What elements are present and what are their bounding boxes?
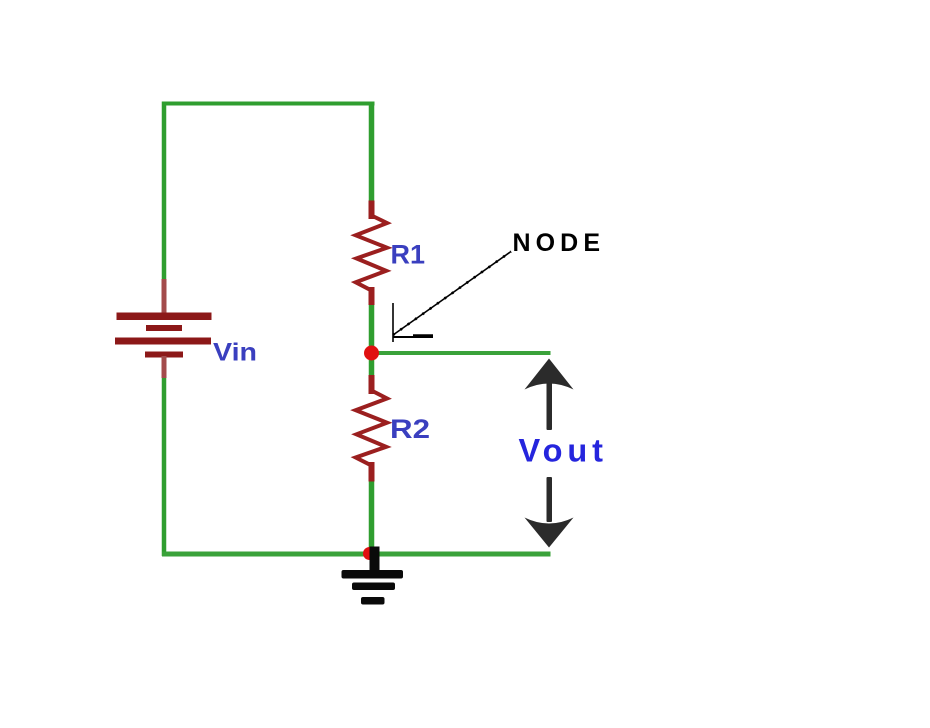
leader line to NODE bbox=[393, 252, 511, 336]
leader arrowhead tick horizontal bbox=[393, 336, 434, 338]
wire: top horizontal bbox=[162, 102, 375, 106]
ground bar 1 bbox=[342, 570, 404, 579]
Vout arrow up bbox=[525, 359, 574, 431]
Vout arrow down bbox=[525, 477, 574, 548]
battery Vin bbox=[115, 279, 212, 378]
battery plate 1 (long) bbox=[117, 313, 212, 321]
wire: bottom horizontal bbox=[162, 552, 551, 557]
wire: middle vertical (R1 to node) bbox=[369, 301, 375, 350]
ground bbox=[342, 547, 404, 605]
battery plate 2 (short) bbox=[146, 325, 182, 331]
leader arrowhead tick horizontal thick part bbox=[413, 334, 433, 338]
junction dot at ground bbox=[363, 547, 376, 560]
battery bottom lead bbox=[162, 356, 167, 378]
svg-text:R2: R2 bbox=[390, 414, 430, 444]
wire: middle vertical lower (R2 to ground) bbox=[369, 477, 375, 554]
ground stem bbox=[370, 547, 380, 572]
battery plate 4 (short) bbox=[145, 352, 183, 358]
svg-text:Vin: Vin bbox=[213, 339, 257, 367]
node NODE (junction dot) bbox=[364, 346, 379, 361]
resistor R1 bbox=[356, 204, 387, 303]
battery top lead bbox=[162, 279, 167, 314]
leader arrowhead tick vertical bbox=[392, 303, 394, 342]
svg-text:R1: R1 bbox=[391, 240, 426, 270]
battery plate 3 (long) bbox=[115, 338, 211, 345]
wire: left vertical upper (to battery +) bbox=[162, 102, 167, 281]
wire: left vertical lower (battery - to bottom) bbox=[162, 378, 167, 557]
wire: middle vertical (node to R2) bbox=[369, 357, 375, 380]
resistor R2 bbox=[356, 378, 387, 479]
ground bar 3 bbox=[361, 597, 385, 605]
wire: node to Vout horizontal bbox=[374, 351, 551, 355]
ground bar 2 bbox=[352, 583, 395, 591]
wire: middle vertical upper (top to R1) bbox=[369, 102, 375, 206]
